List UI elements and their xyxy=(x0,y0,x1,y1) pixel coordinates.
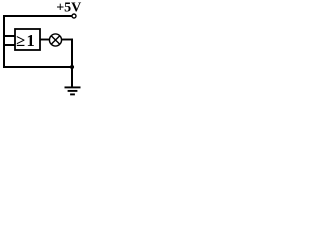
+5V supply label xyxy=(56,1,81,16)
wire bottom xyxy=(3,66,72,68)
wire top from +5V terminal to left bus xyxy=(3,15,72,17)
lamp indicator H1 xyxy=(49,34,61,46)
wire lamp to corner xyxy=(62,39,73,41)
wire left bus xyxy=(3,15,5,68)
wire input 1 xyxy=(4,35,15,37)
wire output gate to lamp xyxy=(40,39,50,41)
OR gate U1 box xyxy=(15,29,40,50)
junction node xyxy=(70,65,74,69)
wire input 2 xyxy=(4,44,15,46)
wire right vertical down to ground xyxy=(71,39,73,87)
svg-text:+5V: +5V xyxy=(56,1,81,16)
OR gate U1 label ≥1 xyxy=(16,31,36,50)
svg-text:≥1: ≥1 xyxy=(16,31,36,50)
ground xyxy=(65,87,81,94)
terminal +5V xyxy=(72,14,76,18)
